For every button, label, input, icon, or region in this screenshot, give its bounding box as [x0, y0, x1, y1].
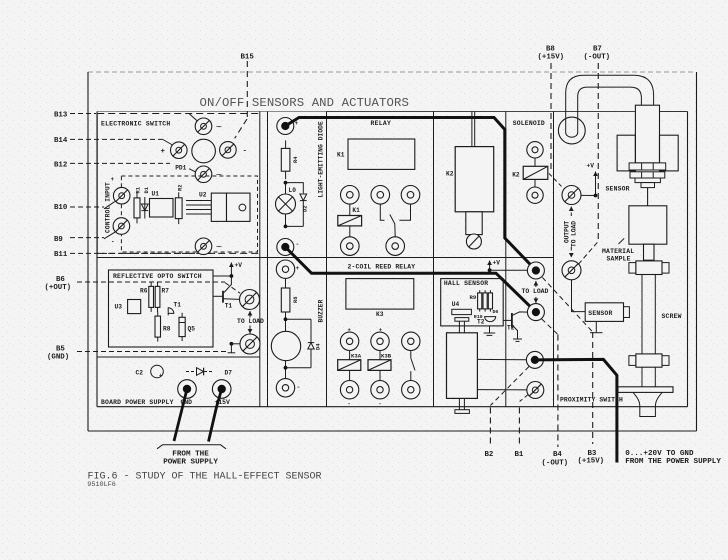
dashed link B2 to proximity jack [490, 367, 529, 406]
wire +V node down to T1 collector [224, 276, 231, 293]
jack output +V [562, 186, 581, 205]
wire K3B bottom [379, 370, 381, 380]
ground stub (opto) [228, 344, 236, 353]
jack output -OUT [562, 261, 581, 280]
svg-text:SAMPLE: SAMPLE [607, 256, 631, 263]
proximity sensor terminal [590, 321, 603, 332]
svg-text:POWER SUPPLY: POWER SUPPLY [163, 458, 218, 466]
terminal label B7 (-OUT) [584, 46, 611, 62]
solenoid K2 plunger [466, 212, 482, 235]
jack K3B top [371, 332, 389, 350]
node buzzer top [284, 312, 311, 332]
coil K3A [338, 360, 361, 371]
sensor wing right [660, 135, 679, 171]
power supply brace [157, 445, 226, 449]
resistor R7 [155, 282, 160, 312]
wire K2 coil top [534, 158, 536, 166]
jack opto ground [240, 334, 260, 354]
svg-text:B10: B10 [54, 204, 68, 212]
label 0...+20V TO GND FROM THE POWER SUPPLY [625, 450, 721, 466]
leader to AC jack 1 [189, 114, 197, 121]
resistor R8 (buzzer) [281, 288, 290, 312]
leader B13 [70, 113, 96, 115]
proximity actuator solenoid body [447, 333, 478, 399]
svg-text:B7: B7 [593, 46, 602, 54]
svg-text:U1: U1 [152, 191, 160, 198]
resistor R6 [149, 282, 154, 312]
reducer step [635, 178, 660, 188]
transistor Q5 [179, 313, 185, 341]
transistor U2 body TO-220 [211, 193, 250, 221]
jack AC bottom (electronic switch) [195, 238, 212, 255]
svg-text:LIGHT-EMITTING DIODE: LIGHT-EMITTING DIODE [318, 121, 325, 197]
svg-text:+V: +V [235, 262, 243, 269]
svg-text:HALL SENSOR: HALL SENSOR [444, 280, 488, 287]
+V arrow (opto) [229, 263, 234, 277]
svg-text:B13: B13 [54, 111, 68, 119]
diode D2 [300, 194, 307, 226]
panel ELECTRONIC SWITCH outline [97, 114, 260, 254]
screw shaft lower [642, 367, 655, 387]
svg-text:-: - [296, 241, 300, 248]
svg-text:(+15V): (+15V) [538, 54, 565, 62]
jack K3B bottom [371, 381, 389, 399]
jack buzzer minus [276, 379, 294, 397]
svg-text:K2: K2 [446, 171, 454, 178]
svg-text:B12: B12 [54, 161, 67, 169]
jack LED plus [277, 118, 294, 135]
proximity actuator bottom rod [459, 398, 464, 409]
jack to-load bottom [527, 304, 544, 321]
dashed line B8 [550, 63, 552, 171]
resistor R4 [281, 140, 290, 179]
svg-text:R6: R6 [140, 288, 148, 295]
lamp L0 [276, 183, 296, 227]
wire LED branch top [286, 183, 304, 194]
transistor T1 symbol [213, 291, 240, 303]
wire actuator to lower jack [477, 389, 526, 391]
IC U3 box [128, 300, 141, 314]
screw neck [644, 244, 655, 260]
pipe end cap [566, 133, 578, 138]
transistor U2 leads [186, 201, 211, 215]
resistor network R9 a [478, 290, 482, 311]
svg-text:K2: K2 [512, 171, 520, 178]
svg-text:SENSOR: SENSOR [606, 185, 630, 192]
solenoid K2 plunger rod [472, 112, 475, 147]
jack K3 contact top [402, 332, 420, 350]
svg-text:B11: B11 [54, 251, 68, 259]
svg-text:CONTROL INPUT: CONTROL INPUT [105, 182, 112, 233]
jack buzzer plus [276, 260, 294, 278]
jack AC mid (electronic switch) [195, 166, 212, 183]
svg-text:ELECTRONIC SWITCH: ELECTRONIC SWITCH [101, 120, 170, 127]
jack relay NC [401, 186, 420, 205]
svg-text:R9: R9 [470, 294, 477, 301]
leader B6 [77, 282, 240, 293]
jack minus (electronic switch) [220, 142, 237, 159]
svg-text:R8: R8 [293, 297, 299, 303]
svg-text:+: + [296, 265, 300, 272]
wire gnd node to jack [231, 343, 240, 345]
jack K2 coil top [527, 142, 543, 158]
wire buzzer top [285, 278, 287, 288]
leader B10 [70, 202, 115, 209]
svg-text:SOLENOID: SOLENOID [513, 120, 545, 127]
label FROM THE POWER SUPPLY [163, 450, 218, 466]
leader B12 [70, 162, 170, 164]
material sample block [629, 206, 667, 244]
svg-text:B6: B6 [56, 276, 65, 284]
jack relay common [371, 186, 390, 205]
panel HALL SENSOR outline [441, 279, 504, 326]
diode D7 [186, 368, 214, 376]
wire K3A top [349, 351, 351, 360]
svg-text:U2: U2 [199, 191, 207, 198]
arrow to load up (solenoid) [534, 281, 539, 287]
jack AC top (electronic switch) [195, 118, 212, 135]
svg-text:R4: R4 [293, 156, 299, 163]
resistor network R9 c [488, 290, 492, 311]
svg-text:FROM THE: FROM THE [172, 450, 209, 458]
arrow to load down (opto) [248, 326, 253, 334]
svg-text:BUZZER: BUZZER [318, 299, 325, 322]
relay K1 contact [380, 204, 410, 237]
resistor R1 [134, 192, 140, 223]
control input dashed box [121, 176, 257, 252]
wire thick +15V to power supply [209, 389, 222, 442]
svg-text:B1: B1 [515, 451, 524, 459]
svg-text:OUTPUT: OUTPUT [563, 220, 570, 243]
svg-text:U4: U4 [452, 301, 460, 308]
svg-text:T1: T1 [225, 303, 233, 310]
outer figure frame [88, 72, 697, 431]
svg-text:(+OUT): (+OUT) [45, 284, 72, 292]
jack +15V (power) [212, 380, 231, 399]
svg-text:9510LF6: 9510LF6 [87, 481, 116, 489]
wire K2 coil bottom [534, 179, 536, 187]
buzzer body [271, 331, 300, 360]
jack K3A top [340, 332, 358, 350]
jack K2 coil bottom [527, 187, 543, 203]
node LED top [284, 181, 288, 185]
photo device PD1 body circle [192, 139, 216, 163]
sensor head block [635, 105, 659, 163]
pipe outer wall [566, 75, 654, 133]
dashed link -OUT jack to B7 [578, 241, 598, 264]
dashed line B4 [557, 335, 559, 448]
dashed arrow output up [569, 207, 574, 217]
diode D1 [141, 197, 148, 219]
svg-text:SCREW: SCREW [662, 313, 682, 320]
jack proximity output [526, 351, 543, 368]
svg-text:D2: D2 [303, 206, 309, 212]
svg-text:TO LOAD: TO LOAD [237, 318, 264, 325]
terminal label B5 (GND) [47, 346, 69, 362]
reed relay K3 body [346, 279, 414, 310]
dashed line B1 [518, 408, 520, 448]
svg-text:B9: B9 [54, 236, 63, 244]
svg-text:+: + [161, 148, 166, 156]
relay coil K1 [338, 216, 362, 226]
svg-text:-: - [297, 384, 301, 391]
solenoid K2 plunger screw head [466, 234, 481, 249]
wire thick GND to power supply [174, 389, 187, 441]
diode D4 [308, 319, 314, 367]
+V arrow (hall) [487, 261, 492, 271]
dashed line B3 [592, 332, 594, 444]
arrow to load down (solenoid) [534, 297, 539, 303]
svg-text:2-COIL REED RELAY: 2-COIL REED RELAY [348, 264, 416, 271]
svg-text:PROXIMITY SWITCH: PROXIMITY SWITCH [560, 397, 623, 404]
svg-text:Q5: Q5 [188, 326, 196, 333]
photo transistor T1 element [168, 308, 174, 316]
pipe end ring [558, 117, 585, 144]
terminal label B4 (-OUT) [542, 451, 569, 468]
svg-text:TO LOAD: TO LOAD [522, 288, 549, 295]
wire thick proximity to bottom [535, 359, 617, 462]
screw shaft upper [642, 275, 655, 354]
node gnd opto [230, 342, 234, 346]
transistor T2 symbol [503, 312, 527, 339]
svg-text:D6: D6 [493, 309, 499, 315]
svg-text:REFLECTIVE OPTO SWITCH: REFLECTIVE OPTO SWITCH [113, 273, 202, 280]
jack GND (power) [178, 380, 197, 399]
svg-text:T1: T1 [174, 302, 182, 309]
svg-text:FIG.6 - STUDY OF THE HALL-EFFE: FIG.6 - STUDY OF THE HALL-EFFECT SENSOR [88, 472, 322, 483]
jack proximity lower [527, 382, 544, 399]
board outline [97, 112, 688, 407]
power supply divider [97, 356, 260, 358]
svg-text:R2: R2 [178, 185, 184, 191]
ground (hall panel) [484, 326, 496, 336]
proximity actuator foot [455, 410, 470, 414]
svg-text:+V: +V [587, 163, 595, 170]
ground (T2) [513, 339, 522, 341]
screw nut upper [629, 261, 669, 275]
jack control plus [113, 187, 130, 204]
leader B5 [77, 351, 229, 353]
svg-text:B15: B15 [241, 54, 255, 62]
svg-text:B8: B8 [546, 46, 555, 54]
wire actuator to proximity jack [477, 358, 526, 360]
svg-text:R8: R8 [163, 326, 171, 333]
wire thick LED to load jack [285, 247, 536, 312]
svg-text:D1: D1 [144, 187, 150, 193]
jack K3 contact bottom [402, 381, 420, 399]
IC U4 box [452, 309, 472, 314]
svg-text:~: ~ [216, 122, 222, 134]
svg-text:C2: C2 [136, 369, 144, 376]
reed contact K3 [411, 351, 415, 381]
board column dividers [260, 112, 554, 407]
svg-text:TO LOAD: TO LOAD [570, 221, 577, 247]
jack LED minus [277, 239, 294, 256]
jack T1 output [240, 290, 260, 310]
hall element dome [485, 317, 496, 322]
dashed line B7 [597, 63, 599, 241]
resistor network R9 b [483, 290, 487, 311]
svg-text:L0: L0 [289, 187, 297, 194]
leader PD1 to jack [189, 169, 197, 173]
dashed line B2 [489, 408, 491, 448]
jack to-load top [527, 262, 544, 279]
leader B14 [70, 139, 173, 145]
sensor wing left [617, 135, 635, 171]
vertical label OUTPUT TO LOAD [563, 220, 577, 247]
svg-text:U3: U3 [115, 304, 123, 311]
label MATERIAL SAMPLE [602, 248, 634, 263]
leader material sample [619, 238, 625, 244]
svg-text:B5: B5 [56, 346, 65, 354]
arrow to load up (opto) [248, 311, 253, 318]
proximity actuator cap [455, 318, 469, 322]
solenoid K2 body [455, 147, 494, 212]
svg-text:B4: B4 [553, 451, 562, 459]
capacitor C2 [151, 365, 164, 379]
svg-text:+: + [159, 373, 162, 379]
node +V hall [488, 268, 528, 272]
svg-text:-: - [243, 148, 248, 156]
dashed link to-load bottom to B4 [542, 319, 558, 335]
jack K3A bottom [340, 381, 358, 399]
resistor R2 [175, 192, 182, 224]
svg-text:FROM THE POWER SUPPLY: FROM THE POWER SUPPLY [625, 458, 721, 466]
svg-text:K1: K1 [337, 152, 345, 159]
svg-text:R1: R1 [136, 187, 142, 193]
svg-text:R7: R7 [162, 288, 170, 295]
terminal label B3 (+15V) [578, 450, 605, 466]
terminal label B8 (+15V) [538, 46, 565, 62]
panel REFLECTIVE OPTO SWITCH outline [109, 270, 214, 347]
svg-text:0...+20V TO GND: 0...+20V TO GND [625, 450, 694, 458]
node +V opto [230, 274, 234, 278]
svg-text:K3B: K3B [381, 353, 392, 360]
leader B9 [70, 232, 116, 239]
svg-text:-: - [111, 239, 115, 246]
dashed arrow output down [569, 247, 574, 258]
relay K1 body [348, 139, 415, 169]
nut bar 2 [630, 172, 665, 178]
svg-text:(+15V): (+15V) [578, 458, 605, 466]
node output +V [581, 194, 597, 198]
svg-text:T2: T2 [477, 319, 485, 326]
dashed line B15 [235, 61, 248, 138]
dashed link K2 coil to output jack [549, 174, 564, 190]
wire -OUT jack to sensor [572, 280, 586, 312]
board mid divider [97, 257, 554, 259]
node buzzer bottom [284, 361, 311, 379]
jack relay contact out [386, 237, 405, 256]
screw foot spout [633, 392, 662, 416]
pipe inner wall [578, 87, 642, 133]
wire K3B top [379, 351, 381, 360]
IC U1 box [150, 199, 174, 218]
svg-text:RELAY: RELAY [371, 120, 392, 127]
proximity sensor box [585, 303, 623, 322]
wire thick B15/relay feed [285, 118, 536, 271]
resistor R8 (opto) [155, 312, 161, 342]
screw nut lower [629, 354, 669, 367]
leader B11 [70, 252, 215, 254]
relay coil K2 [523, 166, 548, 179]
svg-text:K1: K1 [352, 207, 360, 214]
svg-text:D7: D7 [225, 369, 233, 376]
proximity sensor tab [624, 307, 630, 318]
svg-text:K3A: K3A [351, 353, 362, 360]
wire panel to +V node [213, 275, 231, 277]
node LED bottom [284, 225, 304, 229]
dashed link to-load top to B3 [542, 277, 592, 332]
dashed link B1 to lower jack [520, 395, 528, 402]
svg-text:B2: B2 [485, 451, 494, 459]
svg-text:D4: D4 [316, 343, 322, 350]
svg-text:-: - [378, 400, 381, 407]
jack control minus [113, 218, 130, 235]
+V arrow (output) [593, 172, 598, 196]
svg-text:T2: T2 [507, 324, 515, 331]
svg-text:(GND): (GND) [47, 354, 69, 362]
svg-text:B14: B14 [54, 137, 68, 145]
svg-text:+: + [111, 176, 115, 183]
proximity actuator rod [459, 321, 464, 333]
svg-text:MATERIAL: MATERIAL [602, 248, 634, 255]
wire coil bottom [349, 226, 351, 237]
svg-text:BOARD POWER SUPPLY: BOARD POWER SUPPLY [101, 399, 174, 406]
svg-text:(-OUT): (-OUT) [542, 460, 569, 468]
coil K3B [368, 360, 391, 371]
wire K3A bottom [349, 370, 351, 380]
svg-text:PD1: PD1 [175, 164, 186, 171]
svg-text:+V: +V [493, 260, 501, 267]
wire screw shaft link [647, 188, 649, 206]
svg-text:~: ~ [216, 242, 222, 254]
wire coil top [349, 204, 351, 215]
jack plus (electronic switch) [171, 142, 188, 159]
svg-text:SENSOR: SENSOR [588, 310, 612, 317]
svg-text:-: - [348, 400, 351, 407]
screw foot flange [618, 387, 673, 393]
svg-text:ON/OFF SENSORS AND ACTUATORS: ON/OFF SENSORS AND ACTUATORS [200, 96, 409, 110]
band line 2-coil reed relay [327, 272, 434, 274]
terminal label B6 (+OUT) [45, 276, 72, 292]
nut bar 1 [629, 163, 666, 170]
svg-text:(-OUT): (-OUT) [584, 54, 611, 62]
svg-text:K3: K3 [376, 311, 384, 318]
jack relay coil bottom [341, 237, 360, 256]
jack relay coil top [341, 186, 360, 205]
